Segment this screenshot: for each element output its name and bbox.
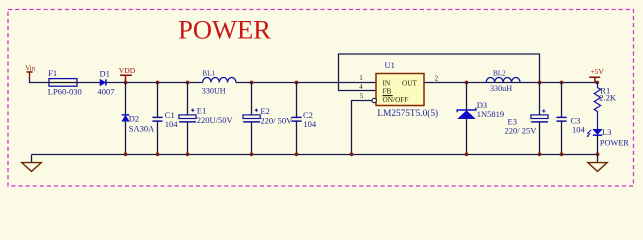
wire top rail BL1 to U1 bbox=[236, 82, 376, 84]
power VDD bbox=[119, 66, 136, 83]
svg-text:220U/50V: 220U/50V bbox=[197, 115, 234, 125]
wire output rail bbox=[424, 82, 598, 84]
svg-text:+5V: +5V bbox=[590, 67, 604, 76]
capacitor C2 104 bbox=[291, 83, 317, 155]
svg-text:220/ 50V: 220/ 50V bbox=[260, 115, 293, 125]
svg-text:220/ 25V: 220/ 25V bbox=[505, 126, 538, 136]
sheet dashed border bbox=[8, 10, 634, 187]
node junction D2 bottom bbox=[124, 152, 128, 156]
svg-text:2.2K: 2.2K bbox=[599, 93, 617, 103]
node junction C3 bottom bbox=[560, 152, 564, 156]
diode D2 SA30A (TVS) bbox=[122, 113, 155, 133]
wire pin5 ON/OFF to bottom rail bbox=[352, 101, 372, 155]
svg-text:104: 104 bbox=[165, 119, 179, 129]
capacitor E1 220U/50V bbox=[179, 83, 234, 155]
capacitor C3 104 bbox=[556, 83, 585, 155]
wire D2 vertical bbox=[125, 83, 127, 115]
node junction VDD/D2 bbox=[124, 81, 128, 85]
svg-text:104: 104 bbox=[572, 125, 586, 135]
op-amp U1 LM2575 body bbox=[376, 60, 438, 119]
svg-text:1: 1 bbox=[359, 74, 363, 82]
svg-text:F1: F1 bbox=[48, 68, 57, 78]
svg-text:L3: L3 bbox=[602, 127, 611, 137]
node junction C1 bottom bbox=[156, 152, 160, 156]
node junction C3 top bbox=[560, 81, 564, 85]
wire bottom rail bbox=[32, 154, 598, 156]
svg-text:4: 4 bbox=[359, 83, 363, 91]
svg-text:5: 5 bbox=[360, 92, 364, 100]
svg-text:104: 104 bbox=[303, 119, 317, 129]
ground right bbox=[588, 155, 607, 172]
svg-text:330uH: 330uH bbox=[490, 84, 512, 93]
svg-text:D1: D1 bbox=[100, 69, 110, 79]
svg-text:VDD: VDD bbox=[119, 66, 136, 75]
node junction D3 top bbox=[465, 81, 469, 85]
port Vin bbox=[25, 65, 35, 78]
ground left bbox=[22, 155, 42, 172]
node junction C2 top bbox=[295, 81, 299, 85]
svg-text:SA30A: SA30A bbox=[129, 124, 155, 134]
node junction pin5 bottom bbox=[350, 152, 354, 156]
svg-text:BL1: BL1 bbox=[202, 69, 215, 77]
svg-text:OUT: OUT bbox=[402, 78, 418, 87]
svg-text:2: 2 bbox=[435, 74, 439, 82]
inductor BL1 330UH bbox=[202, 69, 236, 95]
power +5V bbox=[589, 67, 604, 82]
svg-text:ON/OFF: ON/OFF bbox=[383, 95, 409, 104]
capacitor C1 104 bbox=[152, 83, 178, 155]
svg-text:U1: U1 bbox=[385, 60, 395, 70]
resistor R1 2.2K bbox=[594, 83, 617, 130]
node junction E2 bottom bbox=[250, 152, 254, 156]
diode D3 1N5819 schottky bbox=[457, 83, 504, 155]
svg-text:1N5819: 1N5819 bbox=[477, 109, 504, 119]
svg-text:POWER: POWER bbox=[178, 15, 271, 45]
node junction +5V/R1 bbox=[595, 81, 599, 85]
svg-text:BL2: BL2 bbox=[493, 70, 506, 78]
wire top rail D1 to BL1 bbox=[106, 82, 203, 84]
LED L3 POWER bbox=[587, 127, 630, 155]
node junction E3 bottom bbox=[538, 152, 542, 156]
node junction E1 bottom bbox=[186, 152, 190, 156]
wire FB pin4 to feedback loop bbox=[339, 54, 540, 91]
node junction E1 top bbox=[186, 81, 190, 85]
node junction C1 top bbox=[156, 81, 160, 85]
capacitor E2 220/ 50V bbox=[243, 83, 293, 155]
svg-text:D2: D2 bbox=[129, 113, 139, 123]
capacitor E3 220/ 25V bbox=[505, 83, 549, 155]
svg-text:330UH: 330UH bbox=[202, 87, 226, 96]
fuse F1 bbox=[48, 68, 82, 96]
wire bbox=[77, 82, 100, 84]
pin 5 inversion bubble bbox=[372, 98, 376, 102]
node junction C2 bottom bbox=[295, 152, 299, 156]
wire top rail left segment bbox=[30, 78, 50, 83]
node junction E3/FB top bbox=[538, 81, 542, 85]
wire D2 to bottom rail bbox=[125, 121, 127, 154]
svg-text:4007: 4007 bbox=[98, 87, 115, 97]
node junction L3 bottom bbox=[596, 152, 600, 156]
inductor BL2 330uH bbox=[486, 70, 520, 94]
node junction E2 top bbox=[250, 81, 254, 85]
svg-text:LP60-030: LP60-030 bbox=[48, 86, 82, 96]
svg-text:LM2575T5.0(5): LM2575T5.0(5) bbox=[377, 108, 438, 119]
node junction D3 bottom bbox=[465, 152, 469, 156]
svg-text:POWER: POWER bbox=[600, 138, 630, 147]
diode D1 4007 bbox=[98, 69, 115, 97]
